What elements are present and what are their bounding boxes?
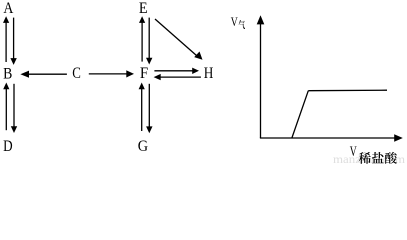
svg-text:C: C <box>72 65 81 82</box>
arrowhead down at F (from E) <box>146 58 152 65</box>
wire E-F down shaft <box>148 18 150 59</box>
x-axis shaft <box>260 137 395 139</box>
arrowhead right at H (top) <box>192 68 199 74</box>
wire F to H top shaft <box>154 70 192 72</box>
arrowhead down at D <box>11 126 17 133</box>
arrowhead x-axis right <box>394 134 403 142</box>
y-axis shaft <box>260 24 262 139</box>
svg-text:A: A <box>3 0 13 17</box>
arrowhead y-axis top <box>257 15 265 24</box>
arrowhead down at G <box>146 126 152 133</box>
arrowhead down at B (from A) <box>10 58 16 65</box>
wire B-D down shaft <box>13 84 15 127</box>
svg-text:E: E <box>139 0 148 17</box>
arrowhead right at F (from C) <box>126 70 134 77</box>
svg-text:G: G <box>138 138 149 155</box>
arrowhead up at A <box>3 16 9 23</box>
wire F-G down shaft <box>148 84 150 127</box>
svg-text:V: V <box>350 144 357 160</box>
wire A-B up shaft <box>5 22 7 62</box>
svg-text:B: B <box>3 65 12 82</box>
wire B-D up shaft <box>5 89 7 130</box>
arrowhead up at B (from D) <box>3 83 9 90</box>
curve plateau segment <box>308 89 387 92</box>
svg-text:H: H <box>204 65 214 82</box>
svg-text:V: V <box>231 14 238 29</box>
arrowhead left at F (bottom, from H) <box>154 74 161 80</box>
label subscript qi (gas) <box>239 20 245 29</box>
wire E-F up shaft <box>141 22 143 61</box>
label yan (salt) <box>372 152 384 163</box>
arrowhead up at F (from G) <box>139 83 145 90</box>
svg-text:D: D <box>3 138 13 155</box>
wire E to H diagonal shaft <box>155 19 197 56</box>
wire A-B down shaft <box>13 18 15 59</box>
curve rising segment <box>292 91 308 138</box>
arrowhead E to H diagonal <box>194 52 202 60</box>
label suan (acid) <box>385 152 397 164</box>
arrowhead left at B (from C) <box>20 71 29 78</box>
wire F-G up shaft <box>141 89 143 131</box>
wire H to F bottom shaft <box>161 76 201 78</box>
label xi (dilute) <box>359 152 371 164</box>
wire C to B shaft <box>29 73 67 75</box>
wire C to F shaft <box>89 73 127 75</box>
arrowhead up at E <box>139 16 145 23</box>
svg-text:F: F <box>140 65 148 82</box>
